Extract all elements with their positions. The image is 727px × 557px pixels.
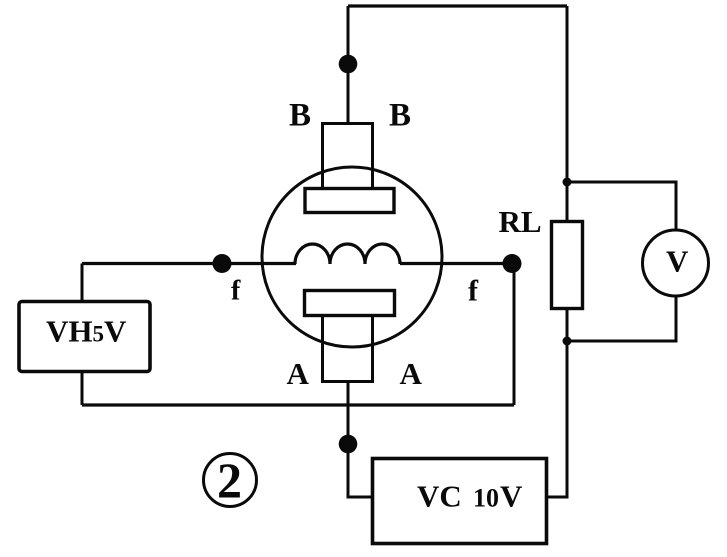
svg-text:2: 2	[217, 452, 242, 508]
plate A (lower electrode)	[305, 291, 395, 316]
right rail from top to RL	[566, 6, 569, 221]
wire voltmeter top branch	[567, 182, 676, 230]
filament wire right (coil to f terminal)	[400, 262, 512, 265]
svg-text:RL: RL	[499, 204, 542, 239]
filament wire left (VH to tube)	[82, 262, 296, 265]
svg-text:A: A	[287, 356, 310, 391]
svg-text:f: f	[468, 275, 479, 308]
voltmeter V	[643, 230, 709, 296]
svg-text:VH5V: VH5V	[46, 314, 127, 349]
tube envelope (circle)	[262, 167, 442, 347]
resistor RL	[552, 222, 583, 309]
svg-text:VC10V: VC10V	[417, 479, 523, 514]
node A terminal dot	[339, 435, 358, 454]
svg-text:B: B	[389, 98, 411, 134]
svg-text:A: A	[400, 356, 423, 391]
svg-text:B: B	[289, 98, 311, 134]
wire bottom heater return	[82, 403, 514, 406]
svg-text:V: V	[666, 244, 689, 279]
wire from top rail down to electrode B stem	[347, 6, 350, 123]
node junction voltmeter top	[563, 178, 572, 187]
figure number circle 2	[204, 454, 257, 507]
wire top horizontal B-line to right rail	[348, 4, 567, 7]
electrode stem B	[323, 124, 373, 189]
wire from f right down to bottom heater return	[513, 270, 516, 405]
wire from stem A down to VC supply	[348, 381, 372, 497]
wire VH bottom lead	[81, 371, 84, 405]
node f right dot	[503, 254, 522, 273]
battery box VC 10V	[373, 459, 547, 544]
node f left dot	[213, 254, 232, 273]
node junction voltmeter bottom	[563, 337, 572, 346]
plate B (upper electrode)	[305, 189, 394, 213]
wire RL bottom to VC right lead	[547, 308, 567, 497]
wire voltmeter bottom branch	[567, 296, 676, 341]
node B terminal dot	[339, 55, 358, 74]
battery box VH5V	[19, 302, 150, 372]
filament coil	[295, 244, 400, 264]
wire VH top lead	[81, 264, 84, 303]
electrode stem A	[323, 316, 373, 382]
svg-text:f: f	[231, 276, 241, 307]
